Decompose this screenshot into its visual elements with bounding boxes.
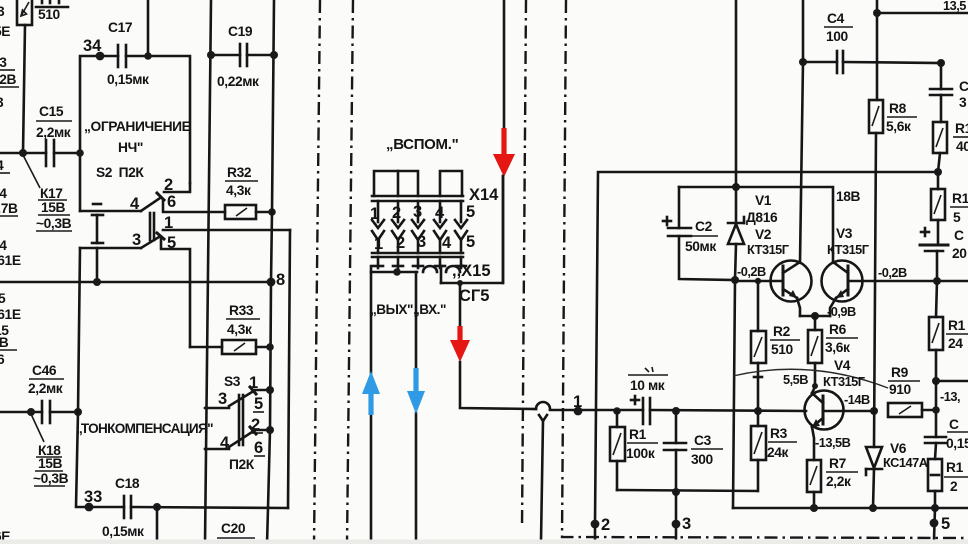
svg-text:5: 5 — [466, 233, 475, 251]
right column: resistor R10 — [931, 172, 968, 225]
wire R8/V6 column — [876, 0, 879, 100]
wire left column (C19 line down to C20 bus) — [205, 0, 211, 544]
svg-text:С19: С19 — [228, 24, 253, 39]
zener V1 Д816 — [728, 0, 778, 280]
svg-text:3: 3 — [413, 203, 422, 221]
node 1 — [574, 407, 583, 416]
X15 socket fork 4 — [434, 231, 446, 253]
capacitor C20 label — [217, 521, 255, 538]
resistor R32 — [225, 165, 258, 219]
switch S2 coupling double line — [149, 213, 152, 240]
svg-text:6: 6 — [167, 193, 176, 211]
svg-text:10 мк: 10 мк — [630, 378, 665, 393]
svg-text:24: 24 — [948, 336, 963, 351]
svg-text:8: 8 — [276, 271, 285, 289]
svg-text:С4: С4 — [827, 11, 845, 26]
svg-text:24к: 24к — [767, 445, 789, 460]
X15 socket fork 5 — [455, 231, 467, 253]
wire R12 to R9 junction — [935, 381, 938, 437]
X15 socket fork 3 — [412, 231, 424, 253]
svg-text:R6: R6 — [829, 322, 847, 337]
svg-text:0,15мк: 0,15мк — [107, 72, 149, 87]
wire V2 collector up to C4 node — [800, 62, 803, 262]
box ОГРАНИЧЕНИЕ НЧ wires — [80, 56, 118, 211]
svg-text:R1: R1 — [948, 318, 966, 333]
svg-text:100к: 100к — [626, 446, 655, 461]
svg-text:3: 3 — [417, 233, 426, 251]
capacitor C46 — [0, 363, 82, 423]
node 2 — [591, 520, 600, 529]
connector X15 body strip — [372, 252, 463, 255]
svg-text:4: 4 — [435, 204, 445, 222]
svg-text:2: 2 — [396, 234, 405, 252]
svg-text:„ВХ.": „ВХ." — [413, 302, 446, 317]
test point callout K18 — [31, 414, 69, 486]
svg-text:5,5В: 5,5В — [783, 372, 808, 387]
right column: resistor R? — [933, 121, 968, 172]
X15 tie wire pins 4-5 to input line — [441, 176, 503, 283]
switch S2 group 1 (pins 4-6-2) — [80, 176, 176, 213]
red arrow 2 (signal to amplifier) — [450, 326, 470, 362]
svg-text:15В: 15В — [41, 200, 66, 215]
wire input node 1 horizontal — [460, 362, 643, 410]
SECTION-RIGHT — [610, 0, 968, 541]
transistor V3 КТ315Г — [822, 261, 968, 317]
junction R1 top — [613, 407, 621, 415]
wire ВХ line (pin3 down) — [415, 272, 418, 370]
svg-text:R9: R9 — [891, 365, 909, 380]
wire ВЫХ line (pin1 down) — [370, 272, 373, 373]
svg-text:20: 20 — [952, 246, 967, 261]
svg-text:40: 40 — [956, 139, 968, 154]
svg-text:33: 33 — [84, 488, 102, 506]
wire S2 left edge down to C48 line — [76, 248, 89, 507]
svg-text:-0,9В: -0,9В — [827, 304, 856, 319]
svg-text:1: 1 — [374, 235, 383, 253]
wire R20 to C15 node — [23, 25, 25, 153]
svg-text:,7В: ,7В — [0, 335, 9, 350]
svg-text:5Е: 5Е — [0, 24, 10, 39]
connector X14 jumper loop pins 4-5 — [440, 171, 462, 196]
wire V1 line down to bottom bus — [733, 280, 735, 508]
SECTION-LEFT — [0, 0, 290, 544]
wire S2 pin6 to R32 — [163, 200, 225, 212]
svg-text:15В: 15В — [38, 456, 63, 471]
wire rail1 with left corner down to node 2 — [595, 172, 937, 524]
svg-text:С2: С2 — [695, 219, 713, 234]
X15 output tie wire pins 1-2-3 — [371, 266, 460, 276]
wire V2/V3 emitter bus — [800, 315, 830, 318]
shield boundary dash-dot C — [522, 0, 526, 528]
svg-text:5: 5 — [466, 203, 475, 221]
left edge cut text fragments — [0, 4, 21, 544]
svg-text:0,22мк: 0,22мк — [217, 74, 259, 89]
resistor R1 100к — [610, 411, 658, 490]
svg-text:-0,2В: -0,2В — [878, 265, 907, 280]
svg-text:НЧ": НЧ" — [118, 140, 143, 155]
svg-text:3: 3 — [132, 231, 141, 249]
transistor V4 КТ315Г — [805, 383, 875, 460]
junction R2/R3 on node1 line — [754, 407, 762, 415]
right column: resistor R12 — [929, 281, 968, 381]
resistor R6 3,6к — [808, 316, 858, 387]
S2 actuator lower stem — [96, 248, 99, 282]
X14 pin 3 — [412, 201, 424, 228]
svg-text:2: 2 — [950, 479, 958, 494]
svg-text:1: 1 — [370, 205, 379, 223]
svg-text:V4: V4 — [834, 358, 851, 373]
bottom bus wire — [733, 507, 968, 510]
svg-text:„ТОНКОМПЕНСАЦИЯ": „ТОНКОМПЕНСАЦИЯ" — [76, 421, 213, 436]
svg-text:КТ315Г: КТ315Г — [827, 242, 869, 257]
svg-text:1: 1 — [573, 393, 582, 411]
junction C48 right / wire down — [153, 503, 161, 511]
svg-text:С20: С20 — [221, 521, 246, 536]
svg-text:3,6к: 3,6к — [825, 340, 850, 355]
svg-text:R8: R8 — [889, 101, 907, 116]
node 33 — [85, 503, 94, 512]
svg-text:S2 П2К: S2 П2К — [96, 165, 144, 180]
svg-text:Х14: Х14 — [469, 186, 499, 204]
bottom scan edge band — [0, 540, 968, 544]
wire rail2 (C2 top to V3 collector) — [679, 187, 833, 262]
svg-text:6: 6 — [0, 352, 5, 367]
right column: capacitor C5 electrolytic — [920, 220, 967, 281]
svg-text:„ОГРАНИЧЕНИЕ: „ОГРАНИЧЕНИЕ — [84, 119, 191, 134]
resistor R8 5,6к — [869, 100, 917, 134]
wire node1 line C1 to V4 — [650, 410, 806, 411]
resistor R7 2,2к — [807, 456, 858, 508]
node 3 — [672, 520, 681, 529]
svg-text:5: 5 — [953, 210, 961, 225]
wire from top to C17 — [147, 0, 150, 56]
connector X14 jumper loop pins 1-3 — [374, 171, 418, 196]
svg-text:52В: 52В — [0, 72, 17, 87]
svg-text:0,15мк: 0,15мк — [102, 524, 144, 539]
svg-text:4: 4 — [442, 234, 452, 252]
svg-text:3: 3 — [218, 390, 227, 408]
wire S2 pin1 to x290 line — [163, 229, 290, 232]
svg-text:S3: S3 — [224, 374, 241, 389]
wire x290 (pin1 down to C20 bus) — [288, 230, 290, 508]
svg-text:13,5: 13,5 — [943, 0, 966, 13]
svg-text:КС147А: КС147А — [883, 455, 928, 470]
svg-text:V6: V6 — [890, 441, 907, 456]
svg-text:R1: R1 — [946, 460, 964, 475]
svg-text:~0,3В: ~0,3В — [33, 471, 69, 486]
right column: capacitor C? — [930, 63, 968, 122]
svg-text:V1: V1 — [755, 193, 772, 208]
svg-text:R3: R3 — [770, 426, 788, 441]
svg-text:300: 300 — [691, 452, 714, 467]
svg-text:5: 5 — [0, 291, 6, 306]
svg-text:-0,2В: -0,2В — [737, 264, 766, 279]
wire node 8 bus — [0, 281, 271, 284]
blue arrow down (input direction) — [407, 368, 425, 414]
wire right column (C19 right to C20 bus) — [267, 0, 274, 544]
svg-text:С46: С46 — [32, 363, 57, 378]
capacitor C1 10мк (input electrolytic) — [628, 367, 668, 424]
svg-text:14: 14 — [0, 238, 7, 253]
svg-text:V2: V2 — [755, 227, 772, 242]
svg-text:2: 2 — [392, 204, 401, 222]
svg-text:3: 3 — [682, 515, 691, 533]
capacitor C15 — [0, 104, 80, 166]
shield boundary dash-dot B — [347, 0, 353, 544]
svg-text:-13,: -13, — [940, 389, 960, 404]
test point callout K17 — [23, 155, 72, 231]
node 5 — [934, 508, 935, 540]
svg-text:С: С — [954, 228, 964, 243]
svg-text:С: С — [949, 417, 959, 432]
svg-text:361Е: 361Е — [0, 253, 21, 268]
svg-text:К17: К17 — [40, 186, 63, 201]
svg-text:5,6к: 5,6к — [886, 119, 911, 134]
right column: capacitor C6 — [925, 417, 968, 451]
wire S2 pin2 to box edge — [164, 183, 190, 192]
wire X15 pin5 down — [459, 283, 462, 329]
capacitor C19 — [207, 24, 278, 89]
svg-text:2,2мк: 2,2мк — [28, 381, 63, 396]
svg-text:510: 510 — [771, 342, 794, 357]
X14 jumper middle riser pin2 — [397, 171, 400, 196]
zener V6 КС147А — [866, 441, 928, 508]
switch S3 (pins 1-5 / 2-6, П2К) — [205, 374, 274, 472]
svg-text:R33: R33 — [229, 303, 254, 318]
wire red arrow1 to X15 pin5 loop — [502, 176, 505, 283]
X14 pin 4 — [434, 201, 446, 228]
svg-text:6,7В: 6,7В — [0, 201, 18, 216]
svg-text:R1: R1 — [952, 191, 968, 206]
svg-text:18В: 18В — [836, 189, 861, 204]
svg-text:0,15: 0,15 — [946, 436, 968, 451]
svg-text:2: 2 — [601, 516, 610, 534]
wire C3 down to node 3 — [675, 492, 678, 541]
svg-text:С3: С3 — [694, 433, 712, 448]
X14 pin numbers — [370, 203, 475, 223]
right column: resistor R13 — [928, 443, 968, 508]
X14 pin 1 — [372, 201, 384, 228]
svg-text:С: С — [959, 79, 968, 94]
wire V2 collector line top — [802, 0, 805, 62]
X14 pin 5 — [455, 201, 467, 228]
svg-text:4: 4 — [130, 195, 140, 213]
resistor R2 510 — [751, 278, 800, 411]
connector X14 body strip — [372, 195, 463, 198]
svg-text:С18: С18 — [115, 476, 140, 491]
shield boundary dash-dot D with bottom corner — [562, 0, 968, 538]
wire S2 pin5 down to R33 — [161, 239, 190, 347]
wire bottom bus R1-C3-R3 — [617, 490, 757, 491]
svg-text:R1: R1 — [629, 427, 647, 442]
svg-text:910: 910 — [889, 382, 912, 397]
svg-text:3: 3 — [0, 4, 5, 19]
svg-text:4,3к: 4,3к — [226, 183, 251, 198]
svg-text:СГ5: СГ5 — [459, 287, 489, 305]
wire input from top (X14 line) — [503, 0, 506, 132]
svg-text:5: 5 — [254, 395, 263, 413]
svg-text:Д816: Д816 — [746, 210, 778, 225]
svg-text:-14В: -14В — [844, 392, 870, 407]
svg-text:14: 14 — [0, 186, 7, 201]
svg-text:6: 6 — [254, 439, 263, 457]
svg-text:П2К: П2К — [229, 457, 255, 472]
X14 pin 2 — [392, 201, 404, 228]
node 8 — [267, 278, 276, 287]
junction and stub wire right — [932, 377, 940, 385]
X15 contact stems and ticks — [373, 257, 466, 268]
node 34 — [96, 52, 105, 61]
svg-text:КТ315Г: КТ315Г — [823, 374, 865, 389]
X15 socket fork 1 — [372, 231, 384, 253]
resistor R20 (variable, top-left, partially cut) — [17, 0, 68, 25]
svg-text:„ВЫХ": „ВЫХ" — [370, 302, 413, 317]
capacitor C17 on box top edge — [107, 20, 149, 87]
svg-text:R2: R2 — [773, 324, 791, 339]
svg-text:„ВСПОМ.": „ВСПОМ." — [386, 136, 459, 153]
switch S2 group 2 (pins 3-5-1) — [80, 214, 176, 252]
svg-text:2,2к: 2,2к — [826, 474, 851, 489]
resistor R3 24к — [751, 411, 797, 491]
blue arrow up (output direction) — [362, 371, 380, 415]
X15 pin numbers — [374, 233, 475, 253]
scan artifact stray curve — [733, 369, 888, 388]
svg-text:~0,3В: ~0,3В — [36, 216, 72, 231]
red arrow 1 (signal into connector) — [493, 128, 515, 177]
svg-text:34: 34 — [83, 37, 102, 55]
svg-text:R7: R7 — [829, 456, 847, 471]
junction C3 top — [672, 407, 680, 415]
svg-text:КТ315Г: КТ315Г — [747, 242, 789, 257]
capacitor C4 100 — [799, 11, 945, 73]
capacitor C3 300 — [664, 411, 723, 492]
svg-text:5: 5 — [941, 515, 950, 533]
shield boundary dash-dot A — [314, 0, 320, 544]
junction R9 left — [870, 407, 878, 415]
resistor R33 — [190, 303, 274, 354]
switch S2 actuator — [92, 204, 103, 243]
wire 13,5 rail — [877, 12, 968, 15]
svg-text:С15: С15 — [39, 104, 64, 119]
svg-text:510: 510 — [38, 7, 61, 22]
svg-text:2,2мк: 2,2мк — [36, 125, 71, 140]
svg-text:361Е: 361Е — [0, 307, 21, 322]
svg-text:3: 3 — [959, 95, 967, 110]
capacitor C48 — [89, 476, 288, 539]
svg-text:С17: С17 — [108, 20, 133, 35]
svg-text:13: 13 — [0, 55, 7, 70]
svg-text:V3: V3 — [836, 226, 853, 241]
svg-text:100: 100 — [826, 29, 849, 44]
svg-text:,,Х15: ,,Х15 — [452, 262, 491, 280]
transistor V2 КТ315Г — [735, 261, 812, 317]
wire x543 down with socket mark — [539, 415, 547, 541]
capacitor C2 50мк — [663, 187, 735, 280]
SECTION-MID — [314, 0, 968, 544]
svg-text:R1: R1 — [955, 121, 968, 136]
X15 socket fork 2 — [392, 231, 404, 253]
svg-text:R32: R32 — [227, 165, 252, 180]
svg-text:-13,5В: -13,5В — [815, 435, 851, 450]
svg-text:50мк: 50мк — [685, 239, 716, 254]
svg-text:4,3к: 4,3к — [227, 322, 252, 337]
resistor R9 910 — [888, 365, 936, 417]
